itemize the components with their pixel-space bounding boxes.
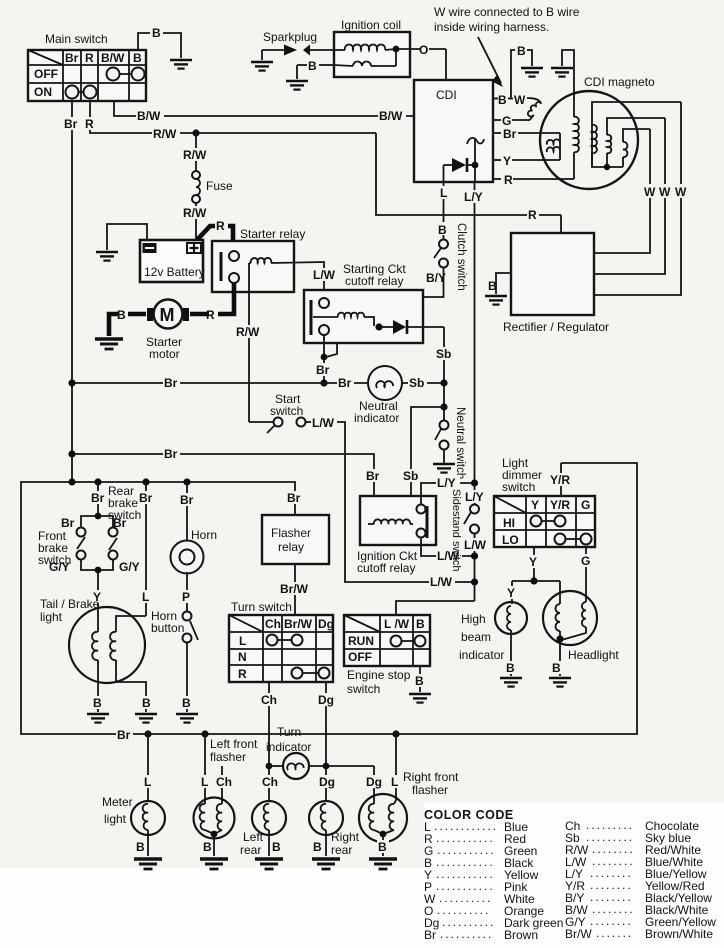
svg-text:12v Battery: 12v Battery bbox=[144, 265, 205, 279]
svg-text:Ignition coil: Ignition coil bbox=[341, 18, 401, 32]
svg-text:B: B bbox=[272, 840, 281, 854]
svg-text:R/W: R/W bbox=[236, 325, 260, 339]
svg-text:G: G bbox=[502, 114, 511, 128]
svg-text:rear: rear bbox=[331, 843, 352, 857]
svg-text:Brown: Brown bbox=[504, 928, 538, 942]
svg-text:O: O bbox=[419, 43, 428, 57]
svg-text:rear: rear bbox=[240, 843, 261, 857]
svg-text:R: R bbox=[85, 51, 94, 65]
svg-text:Br: Br bbox=[139, 491, 153, 505]
svg-text:motor: motor bbox=[149, 347, 180, 361]
svg-text:B/W: B/W bbox=[101, 51, 125, 65]
svg-text:Br: Br bbox=[61, 516, 75, 530]
svg-text:B: B bbox=[117, 308, 126, 322]
svg-text:N: N bbox=[238, 650, 247, 664]
svg-text:B: B bbox=[506, 661, 515, 675]
svg-text:B: B bbox=[93, 696, 102, 710]
svg-text:Brown/White: Brown/White bbox=[645, 927, 713, 941]
svg-text:B: B bbox=[308, 59, 317, 73]
svg-text:B: B bbox=[136, 840, 145, 854]
svg-text:B: B bbox=[416, 617, 425, 631]
svg-text:indicator: indicator bbox=[459, 648, 504, 662]
svg-text:Dg: Dg bbox=[366, 775, 382, 789]
svg-text:CDI: CDI bbox=[436, 88, 457, 102]
svg-text:R/W: R/W bbox=[153, 127, 177, 141]
svg-text:cutoff relay: cutoff relay bbox=[345, 274, 403, 288]
svg-text:beam: beam bbox=[461, 630, 491, 644]
svg-text:W: W bbox=[644, 185, 656, 199]
svg-text:B: B bbox=[133, 51, 142, 65]
svg-text:L: L bbox=[201, 775, 208, 789]
svg-text:Fuse: Fuse bbox=[206, 179, 233, 193]
svg-text:Br: Br bbox=[164, 447, 178, 461]
svg-text:OFF: OFF bbox=[34, 67, 58, 81]
svg-text:light: light bbox=[104, 812, 127, 826]
svg-text:Y/R: Y/R bbox=[550, 473, 570, 487]
svg-text:R: R bbox=[85, 117, 94, 131]
svg-text:L/W: L/W bbox=[430, 575, 453, 589]
svg-text:Flasher: Flasher bbox=[271, 526, 311, 540]
svg-text:Headlight: Headlight bbox=[568, 648, 619, 662]
svg-text:Main switch: Main switch bbox=[45, 32, 108, 46]
svg-text:Ch: Ch bbox=[265, 617, 281, 631]
svg-text:relay: relay bbox=[278, 540, 304, 554]
svg-text:Br/W: Br/W bbox=[284, 617, 313, 631]
svg-text:Neutral switch: Neutral switch bbox=[454, 407, 466, 479]
svg-text:Sparkplug: Sparkplug bbox=[263, 30, 317, 44]
svg-text:L/W: L/W bbox=[313, 268, 336, 282]
svg-text:Br: Br bbox=[180, 493, 194, 507]
svg-text:B: B bbox=[313, 840, 322, 854]
svg-text:Rectifier / Regulator: Rectifier / Regulator bbox=[503, 320, 609, 334]
svg-text:Ch: Ch bbox=[261, 693, 277, 707]
svg-text:M: M bbox=[160, 305, 175, 325]
svg-text:B: B bbox=[552, 661, 561, 675]
svg-text:L: L bbox=[391, 775, 398, 789]
svg-text:High: High bbox=[461, 612, 486, 626]
svg-text:Dg: Dg bbox=[318, 617, 334, 631]
svg-text:L: L bbox=[144, 775, 151, 789]
svg-text:Sb: Sb bbox=[409, 376, 424, 390]
svg-text:flasher: flasher bbox=[412, 783, 448, 797]
svg-text:W: W bbox=[659, 185, 671, 199]
svg-text:Br/W: Br/W bbox=[280, 582, 309, 596]
svg-text:Br: Br bbox=[164, 376, 178, 390]
svg-text:ON: ON bbox=[34, 85, 52, 99]
svg-text:cutoff relay: cutoff relay bbox=[357, 561, 415, 575]
svg-text:R: R bbox=[238, 667, 247, 681]
svg-text:Sb: Sb bbox=[436, 347, 451, 361]
svg-text:Turn switch: Turn switch bbox=[231, 600, 292, 614]
svg-text:B: B bbox=[438, 223, 447, 237]
svg-text:Br: Br bbox=[338, 376, 352, 390]
svg-text:Right: Right bbox=[331, 830, 360, 844]
svg-text:B: B bbox=[152, 26, 161, 40]
svg-text:B/W: B/W bbox=[379, 109, 403, 123]
svg-text:L/Y: L/Y bbox=[464, 190, 483, 204]
svg-text:Br: Br bbox=[316, 363, 330, 377]
svg-text:switch: switch bbox=[270, 404, 303, 418]
svg-text:B: B bbox=[517, 44, 526, 58]
svg-text:R: R bbox=[206, 308, 215, 322]
svg-text:B: B bbox=[415, 674, 424, 688]
svg-text:Br: Br bbox=[366, 469, 380, 483]
svg-text:L/Y: L/Y bbox=[437, 476, 456, 490]
svg-text:Dg: Dg bbox=[319, 775, 335, 789]
svg-text:W: W bbox=[514, 93, 526, 107]
svg-text:L /W: L /W bbox=[384, 617, 410, 631]
svg-text:Br/W: Br/W bbox=[565, 927, 592, 941]
svg-text:Br: Br bbox=[64, 117, 78, 131]
svg-text:Dg: Dg bbox=[318, 693, 334, 707]
svg-text:R: R bbox=[528, 208, 537, 222]
svg-text:P: P bbox=[182, 590, 190, 604]
svg-text:Meter: Meter bbox=[102, 795, 133, 809]
svg-text:Clutch switch: Clutch switch bbox=[455, 223, 467, 291]
svg-text:W wire connected to B wire: W wire connected to B wire bbox=[434, 5, 580, 19]
svg-text:L/W: L/W bbox=[464, 538, 487, 552]
svg-text:Br: Br bbox=[91, 491, 105, 505]
svg-text:Left front: Left front bbox=[210, 737, 258, 751]
svg-text:light: light bbox=[40, 610, 63, 624]
svg-text:..........: .......... bbox=[440, 927, 493, 941]
svg-text:R: R bbox=[504, 173, 513, 187]
svg-text:Sb: Sb bbox=[403, 469, 418, 483]
svg-text:B: B bbox=[488, 279, 497, 293]
svg-text:RUN: RUN bbox=[348, 634, 374, 648]
svg-text:Ch: Ch bbox=[262, 775, 278, 789]
svg-text:flasher: flasher bbox=[210, 750, 246, 764]
svg-text:HI: HI bbox=[503, 516, 515, 530]
svg-text:Left: Left bbox=[243, 830, 264, 844]
svg-text:Y/R: Y/R bbox=[550, 498, 570, 512]
svg-text:L: L bbox=[239, 634, 246, 648]
svg-text:L: L bbox=[440, 186, 447, 200]
svg-text:Sidestand switch: Sidestand switch bbox=[450, 489, 462, 572]
svg-text:G: G bbox=[581, 498, 590, 512]
svg-text:B: B bbox=[498, 93, 507, 107]
svg-text:B: B bbox=[203, 840, 212, 854]
svg-text:Right front: Right front bbox=[403, 770, 459, 784]
svg-text:B: B bbox=[182, 696, 191, 710]
svg-text:Br: Br bbox=[287, 491, 301, 505]
svg-text:G/Y: G/Y bbox=[119, 560, 140, 574]
svg-text:L/Y: L/Y bbox=[465, 490, 484, 504]
svg-text:Br: Br bbox=[424, 928, 436, 942]
svg-text:indicator: indicator bbox=[266, 740, 311, 754]
svg-text:Starter relay: Starter relay bbox=[240, 227, 305, 241]
svg-text:Turn: Turn bbox=[277, 725, 301, 739]
svg-text:W: W bbox=[675, 185, 687, 199]
svg-text:R/W: R/W bbox=[183, 206, 207, 220]
svg-text:R: R bbox=[216, 219, 225, 233]
svg-text:Y: Y bbox=[507, 586, 515, 600]
svg-text:B: B bbox=[378, 840, 387, 854]
svg-text:Y: Y bbox=[531, 498, 539, 512]
svg-text:.......: ....... bbox=[596, 926, 633, 940]
svg-text:G/Y: G/Y bbox=[49, 560, 70, 574]
svg-text:R/W: R/W bbox=[183, 148, 207, 162]
svg-text:L: L bbox=[142, 590, 149, 604]
svg-text:B: B bbox=[142, 696, 151, 710]
svg-text:Br: Br bbox=[117, 728, 131, 742]
svg-text:switch: switch bbox=[502, 480, 535, 494]
svg-text:Br: Br bbox=[503, 127, 517, 141]
svg-text:Horn: Horn bbox=[191, 528, 217, 542]
svg-text:G: G bbox=[581, 554, 590, 568]
svg-text:L/W: L/W bbox=[312, 416, 335, 430]
svg-text:inside wiring harness.: inside wiring harness. bbox=[434, 20, 549, 34]
svg-text:Y: Y bbox=[503, 154, 511, 168]
svg-text:switch: switch bbox=[347, 682, 380, 696]
svg-text:Tail / Brake: Tail / Brake bbox=[40, 597, 100, 611]
svg-text:Engine stop: Engine stop bbox=[347, 668, 411, 682]
svg-text:Ch: Ch bbox=[216, 775, 232, 789]
svg-text:LO: LO bbox=[502, 533, 519, 547]
svg-text:indicator: indicator bbox=[354, 411, 399, 425]
svg-text:Y: Y bbox=[529, 555, 537, 569]
svg-text:OFF: OFF bbox=[348, 650, 372, 664]
svg-text:button: button bbox=[151, 621, 184, 635]
svg-text:B/W: B/W bbox=[137, 109, 161, 123]
svg-text:CDI magneto: CDI magneto bbox=[584, 75, 655, 89]
svg-text:Br: Br bbox=[65, 51, 79, 65]
